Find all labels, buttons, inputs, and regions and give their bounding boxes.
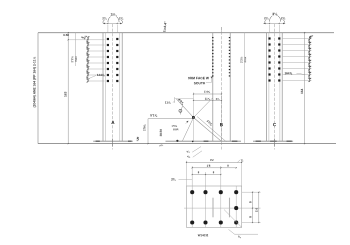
- chain A spacing ticks and 3 labels: [87, 37, 90, 41]
- plan: anchor bolts bottom row: [190, 220, 194, 224]
- plan: top right weld note: [237, 160, 240, 163]
- plan: column flange bar right: [229, 198, 231, 218]
- tick at 163 line top: [68, 39, 69, 40]
- column B centerline: [221, 27, 223, 150]
- base plate A anchor bolts left: [96, 140, 100, 142]
- rung spacing line left: [75, 33, 77, 66]
- column B hidden bolts left: [212, 37, 214, 78]
- base plate A anchor bolts right: [128, 140, 132, 142]
- brace length label 1-0-7/8: [206, 120, 212, 126]
- note 2-2 max right: [241, 57, 243, 63]
- leader curl C 3-1/2 left: [270, 16, 273, 22]
- plan: anchor bolts top row: [190, 190, 194, 194]
- plate B anchor bolts mid: [204, 140, 209, 142]
- top elevation line: [38, 32, 334, 34]
- chain A top label 3-5/8: [83, 35, 87, 40]
- chain A bottom label 144-7/8: [97, 74, 105, 76]
- plan: section label: [198, 234, 208, 236]
- column C top gauge dim line: [263, 22, 285, 24]
- plan: bottom row extension: [242, 222, 261, 224]
- plan: top row extension: [242, 191, 261, 193]
- column A gauge line stubs above top line: [107, 25, 109, 33]
- column A mark: [111, 121, 114, 124]
- vertical note 38.50: [160, 129, 162, 136]
- column B mark: [220, 123, 223, 126]
- tick at leader baseline: [147, 143, 148, 144]
- note 2-2 max left: [71, 56, 73, 62]
- overall height dim line 163: [67, 33, 69, 144]
- dim text 2-3/4 right: [119, 17, 123, 19]
- vertical dim 1-5-5/8 beside leader line: [143, 125, 145, 131]
- dim text 2-3/4 left C: [264, 17, 268, 19]
- column C bolt row extension lines: [283, 38, 312, 40]
- plan: column flange bar left: [212, 198, 214, 218]
- brace edge line 2: [197, 117, 226, 142]
- plan: anchor bolt middle right: [234, 206, 238, 210]
- bolt spacing chain line C: [309, 36, 311, 77]
- column C mark: [273, 123, 276, 126]
- plan: right dim line outer 1-4: [258, 192, 260, 222]
- tick label 8: [81, 36, 83, 38]
- overall height dim line 164: [304, 33, 306, 144]
- workpoint elevation line: [148, 118, 194, 120]
- chain C spacing ticks and 3 labels: [308, 36, 311, 40]
- dim text 3-1/2 column A: [111, 13, 117, 16]
- column A centerline: [112, 24, 114, 150]
- plan: dim line 8 / 8: [192, 174, 221, 176]
- base plate A center tick: [112, 139, 114, 147]
- column A top gauge dim line: [103, 22, 122, 24]
- left boundary line: [37, 33, 39, 144]
- plan: right dim line inner 8 1-4 8: [252, 192, 254, 222]
- face note line 1: [188, 77, 209, 79]
- chain C top label 3-5/8: [309, 34, 313, 39]
- left offset dim leader: [173, 101, 175, 103]
- leader curl 3-1/2 left: [108, 17, 111, 23]
- brace label 4-0: [178, 98, 185, 105]
- left vertical title text: [33, 57, 36, 108]
- weld note at plate A: [137, 137, 140, 142]
- gusset note text: [172, 125, 177, 127]
- column A right flange lines: [119, 33, 121, 142]
- column B left flange: [212, 33, 214, 142]
- weld labels below plate B: [186, 150, 189, 153]
- gusset left edge: [182, 118, 193, 142]
- dim text 2-3/4 left: [102, 17, 106, 19]
- dim text 2-3/4 right C: [281, 17, 285, 19]
- small weld tick on baseline left: [159, 144, 163, 147]
- elevation marker text mid: [163, 22, 167, 32]
- base plate C center mark: [270, 140, 277, 142]
- base plate B: [166, 140, 242, 142]
- column B right flange: [229, 33, 231, 142]
- rung spacing line right: [244, 33, 246, 144]
- column C bolts: [268, 37, 270, 39]
- brace edge line 1: [194, 118, 222, 142]
- weld leader below plate B lower: [193, 151, 202, 157]
- dim text 3-1/2 column C: [272, 13, 278, 16]
- chain C bottom leader: [297, 73, 305, 75]
- chain A bottom leader: [88, 76, 96, 80]
- face note leader: [206, 78, 211, 83]
- plan: horizontal centerline: [184, 207, 261, 209]
- baseline (top of concrete): [38, 143, 336, 145]
- base plate C: [253, 140, 293, 142]
- base plate C anchor bolts right: [287, 140, 292, 142]
- plan: base plate outline: [187, 186, 242, 227]
- angle symbol circle: [179, 109, 182, 112]
- column B centerline stub above: [221, 27, 223, 33]
- base plate A: [93, 140, 133, 142]
- column C centerline: [273, 24, 275, 150]
- brace workline upper: [176, 99, 193, 118]
- elevation note 6.50: [63, 34, 68, 36]
- plate B small dark mark: [192, 141, 194, 143]
- plan: leader inside plate: [224, 210, 242, 228]
- chain C bottom label 164-7/8: [285, 72, 293, 74]
- bolt spacing chain line A: [87, 37, 89, 78]
- column C left flange lines: [266, 33, 268, 142]
- plan: edge distance note 2-3/4: [171, 178, 175, 181]
- angle arc at workpoint: [180, 106, 182, 115]
- plan: dim line 3-2: [187, 161, 242, 163]
- plan: bolt column grid lines: [191, 166, 193, 227]
- base plate C anchor bolts left: [256, 140, 261, 142]
- plan: plate edge extensions: [186, 161, 188, 186]
- dim line 11-7/16 and 3-9/16: [194, 99, 222, 101]
- left offset dim 11-7/16 note: [165, 102, 171, 104]
- leader curl C 3-1/2 right: [278, 16, 281, 22]
- workpoint elevation drop line: [147, 119, 149, 144]
- gusset top edge: [194, 98, 214, 118]
- dim 5-1-5/8: [150, 114, 157, 116]
- plate B anchor bolts right: [232, 140, 238, 142]
- leader curl 3-1/2 right: [116, 17, 119, 23]
- plan: dim line 1-8 / 8: [192, 167, 236, 169]
- column A left flange lines: [102, 33, 104, 142]
- extension line at column B centerline dim: [221, 93, 223, 142]
- weld leader below plate B upper: [192, 147, 201, 153]
- column C gauge stubs: [269, 25, 271, 33]
- plan: leader below plate: [229, 229, 259, 234]
- face note line 2: [194, 82, 205, 84]
- column B hidden bolts right: [229, 37, 231, 78]
- column A bolt row extension lines: [68, 39, 104, 41]
- plate B left bolt: [176, 140, 178, 142]
- column A bolts: [107, 38, 109, 40]
- extension line at workpoint x: [193, 93, 195, 142]
- dim line 1-4-7/8: [194, 93, 222, 95]
- gusset note arrow: [186, 121, 188, 123]
- column C right flange lines: [279, 33, 281, 142]
- workpoint square: [192, 116, 195, 119]
